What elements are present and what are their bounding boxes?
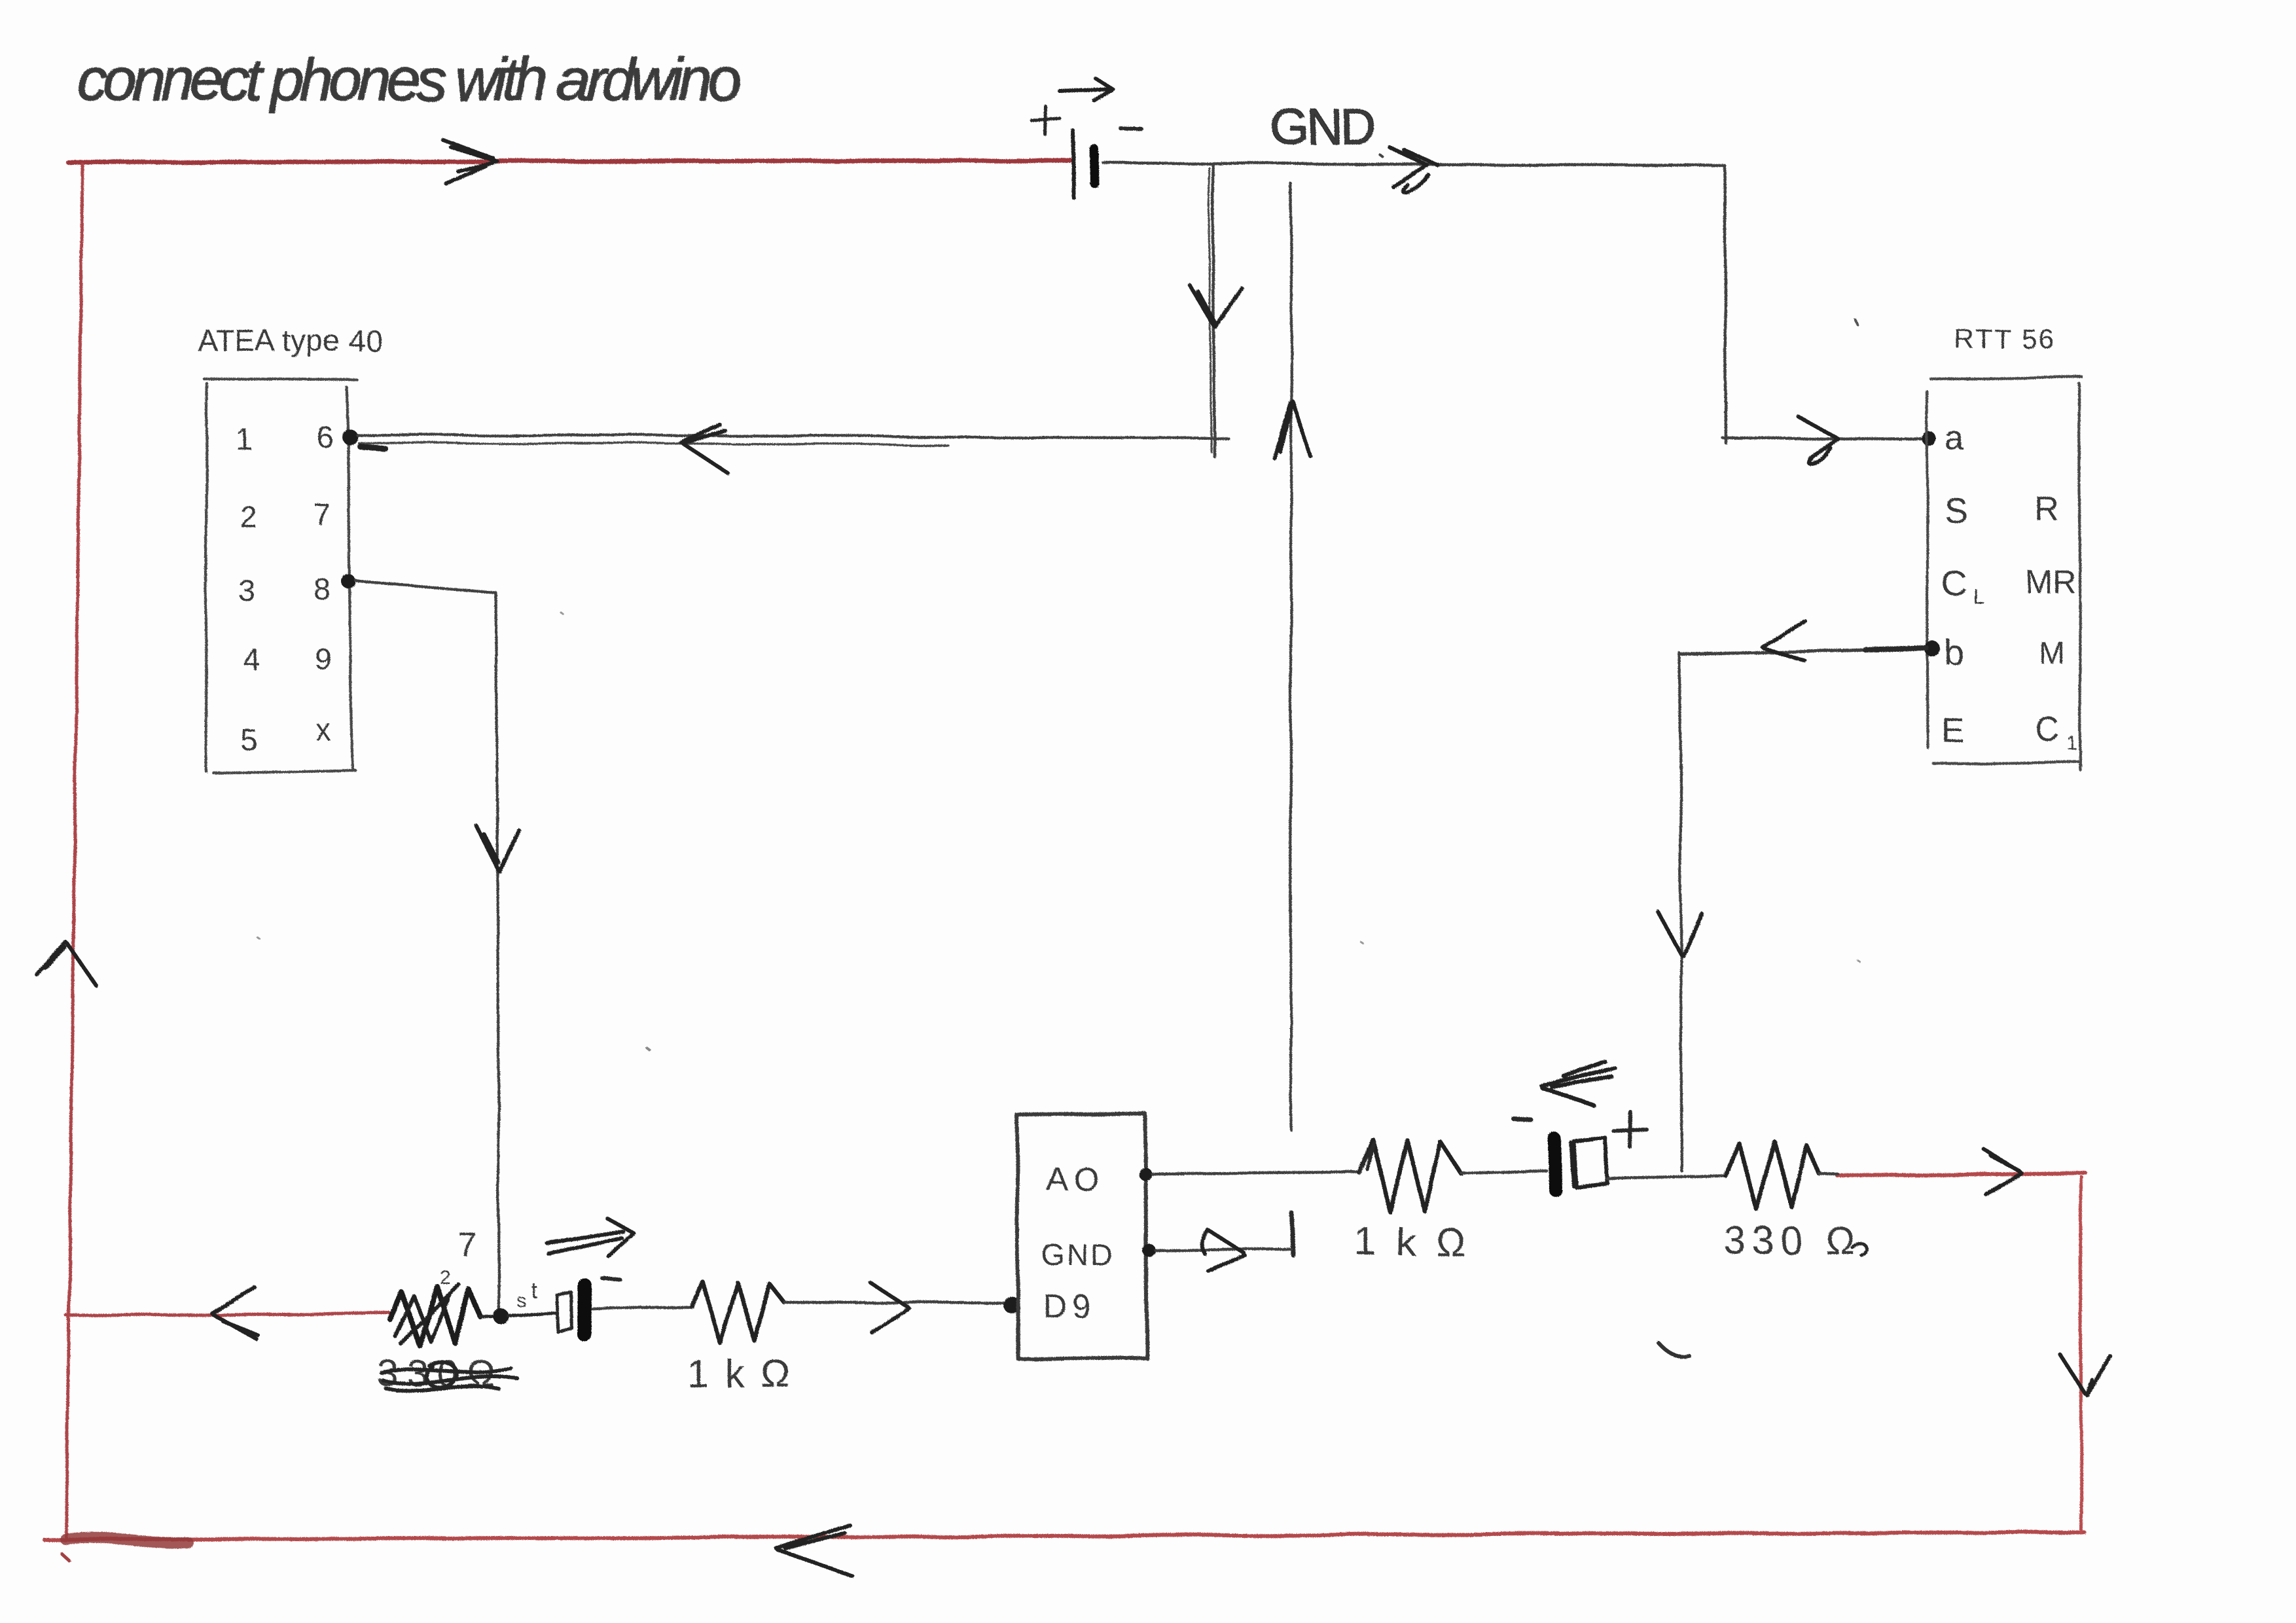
title: connect phones with ardwino [77, 46, 742, 113]
arrow down on pin8 wire [476, 826, 518, 872]
svg-text:GND: GND [1270, 99, 1376, 155]
arrow left on b wire [1762, 620, 1805, 661]
battery BT1 short thick plate (-) [1094, 149, 1095, 184]
svg-text:S: S [1944, 491, 1967, 530]
wire tick at end of GND vertical [1291, 1213, 1293, 1255]
battery minus label [1121, 126, 1141, 130]
svg-text:1kΩ: 1kΩ [1355, 1220, 1465, 1264]
svg-text:330 Ω: 330 Ω [1724, 1219, 1855, 1262]
wire arduino GND to tick [1156, 1249, 1291, 1251]
junction dot mic node [493, 1308, 509, 1324]
junction dot at RTT pin a [1922, 432, 1937, 446]
junction dot at D9 [1003, 1296, 1020, 1313]
svg-text:connect phones with ardwino: connect phones with ardwino [77, 46, 742, 113]
junction dot at pin 8 [341, 574, 355, 588]
arrow right before D9 [870, 1283, 910, 1332]
connector J1 box ATEA type 40 [204, 379, 357, 773]
wire R2 to D9 [784, 1302, 1012, 1303]
svg-text:3: 3 [239, 574, 256, 608]
svg-text:R: R [2034, 490, 2059, 528]
svg-text:RTT 56: RTT 56 [1954, 323, 2054, 354]
svg-text:M: M [2039, 636, 2065, 671]
arrow into RTT pin a [1798, 416, 1838, 463]
svg-text:C: C [1942, 564, 1967, 603]
arrow up near red left wire [37, 942, 96, 985]
svg-text:MR: MR [2025, 563, 2076, 600]
junction dot at A0 [1139, 1168, 1152, 1181]
wire red V+ top (battery plus to left corner) [68, 160, 1071, 162]
wire GND long vertical to arduino [1291, 184, 1291, 1130]
svg-text:7: 7 [314, 497, 331, 531]
wire RTT b to corner (thicker near pin) [1679, 649, 1927, 654]
arrow right above capacitor C1 [547, 1219, 634, 1257]
resistor R4 330 ohm (right) [1726, 1142, 1819, 1209]
wire red from 330R to right corner [1837, 1173, 2085, 1175]
svg-text:D9: D9 [1043, 1288, 1096, 1325]
wire red lead to left 330R [66, 1313, 391, 1315]
svg-text:L: L [1973, 584, 1984, 608]
svg-text:9: 9 [315, 642, 332, 676]
stray faint dot 4 [1857, 960, 1859, 961]
battery plus label [1031, 107, 1060, 135]
junction dot at pin 6 [342, 429, 357, 444]
svg-text:1: 1 [2067, 733, 2078, 755]
svg-text:6: 6 [316, 419, 333, 454]
wire red bottom [45, 1532, 2084, 1540]
wire GND short stub down (doubled stroke) [1213, 164, 1214, 456]
junction dot at RTT pin b [1925, 641, 1941, 657]
stray pencil mark lower middle [1659, 1343, 1689, 1357]
small mark before RTT label [1855, 319, 1857, 325]
stray dot above GND wire [1380, 155, 1383, 157]
wire pin8 right and down to mic node [355, 580, 499, 1315]
arrow on pin6 wire pointing left [681, 425, 728, 473]
wire red left side vertical [66, 164, 82, 1537]
svg-text:AO: AO [1046, 1160, 1103, 1197]
svg-text:b: b [1945, 633, 1964, 673]
arrow left on red bottom wire [776, 1525, 852, 1576]
battery BT1 long plate (+) [1073, 131, 1074, 198]
svg-text:C: C [2035, 711, 2060, 749]
svg-text:x: x [316, 713, 331, 747]
svg-text:2: 2 [440, 1267, 451, 1289]
arrow left above capacitor C2 [1542, 1061, 1615, 1106]
svg-text:t: t [530, 1277, 537, 1302]
wire red right side vertical [2081, 1177, 2081, 1532]
wire GND corner down [1725, 166, 1726, 443]
stray faint dot 2 [562, 613, 564, 615]
red thick smear at bottom left [65, 1538, 188, 1543]
wire b corner down to speaker node [1679, 653, 1682, 1171]
arrow up on GND long vertical [1274, 401, 1311, 458]
wire R4 to red [1819, 1173, 1838, 1174]
red small tick bottom left [62, 1554, 69, 1560]
resistor R3 1k ohm (right) [1360, 1139, 1461, 1212]
junction dot at arduino GND [1143, 1244, 1156, 1257]
capacitor C1 left plate (outline) [556, 1292, 572, 1332]
wire A0 to R3 [1152, 1173, 1360, 1174]
svg-text:4: 4 [243, 642, 260, 676]
minus label at C1 [602, 1278, 620, 1280]
svg-text:E: E [1942, 712, 1965, 750]
svg-text:ATEA type 40: ATEA type 40 [198, 323, 382, 357]
svg-text:a: a [1946, 420, 1965, 458]
wire GND to RTT pin a [1723, 438, 1927, 439]
wire junction to C1 [508, 1313, 555, 1315]
capacitor C2 left plate (solid) [1554, 1139, 1555, 1190]
arrow current direction above battery [1060, 78, 1113, 100]
wire R1 to junction [480, 1316, 501, 1317]
stray faint dot 1 [647, 1048, 649, 1050]
minus label at C2 [1514, 1119, 1532, 1120]
stray faint dot 5 [258, 938, 260, 939]
svg-text:7: 7 [458, 1226, 477, 1264]
svg-text:8: 8 [314, 572, 331, 606]
connector J2 box RTT 56 [1927, 377, 2082, 770]
arrow right on red segment [1984, 1149, 2021, 1194]
wire pin6 to GND net (doubled long wire) [357, 435, 1228, 438]
arrow left on red lead [211, 1288, 258, 1339]
wire R3 to C2 [1461, 1170, 1546, 1173]
resistor R1 330 ohm (left, messy) [391, 1287, 480, 1346]
stray faint dot 3 [1361, 942, 1363, 944]
wire GND from battery to corner [1103, 163, 1725, 166]
svg-text:2: 2 [240, 500, 257, 534]
svg-text:1: 1 [235, 421, 252, 455]
arrow down on b vertical [1657, 911, 1702, 955]
arrow right on arduino GND wire [1202, 1229, 1246, 1271]
wire C2 to R4 [1607, 1176, 1726, 1179]
svg-text:s: s [516, 1289, 526, 1311]
arrow right on red top wire [442, 139, 497, 184]
arrow on GND wire [1390, 148, 1437, 192]
capacitor C1 right plate (solid) [584, 1285, 585, 1335]
svg-text:1kΩ: 1kΩ [687, 1352, 791, 1396]
wire C1 to R2 [593, 1306, 691, 1310]
speaker element at C2 (open square) [1571, 1137, 1607, 1187]
plus label at C2 [1613, 1112, 1647, 1147]
arrow down on GND stub [1189, 285, 1242, 327]
svg-text:5: 5 [240, 722, 257, 757]
arduino module box [1017, 1114, 1147, 1359]
resistor R2 1k ohm (left) [691, 1281, 784, 1343]
short thick dash at pin 6 [359, 446, 385, 448]
svg-text:GND: GND [1042, 1238, 1115, 1272]
arrow down on red right vertical [2060, 1355, 2110, 1395]
